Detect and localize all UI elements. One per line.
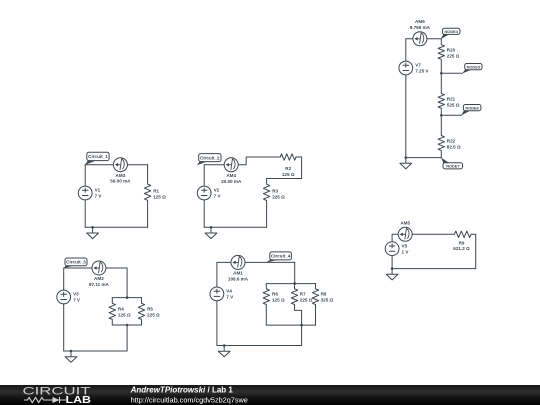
svg-text:V3: V3 [73,292,79,297]
svg-text:NODE5: NODE5 [467,64,481,69]
resistor R1 [144,165,166,228]
svg-text:Circuit_2: Circuit_2 [200,155,220,160]
wire top rail of parallel trio [266,283,315,285]
svg-text:R9: R9 [459,241,465,246]
svg-text:R22: R22 [447,139,456,144]
node label flag Circuit_3 [63,258,87,268]
resistor R7 [291,284,312,305]
node label flag Circuit_2 [197,154,221,166]
wire top of circuit 3 [64,267,127,269]
wire bottom rail of parallel trio [266,324,315,326]
svg-text:AM6: AM6 [415,19,425,24]
wire from bottom rail to bottom wire [126,325,128,351]
svg-text:R3: R3 [272,188,278,193]
svg-text:R8: R8 [321,292,327,297]
junction at bottom rail [300,324,303,327]
svg-text:LAB: LAB [66,395,92,405]
wire right of circuit 5 [471,234,476,268]
ground of circuit 5 [386,267,398,280]
voltage source V1 7V [78,186,102,200]
resistor R22 [438,115,461,157]
voltage source V5 1V [385,242,409,256]
wire left of circuit 2 [203,165,205,228]
voltage source V2 7V [197,186,221,200]
svg-text:Circuit_4: Circuit_4 [271,254,291,259]
junction at top rail [293,282,296,285]
svg-text:AndrewTPiotrowski / Lab 1: AndrewTPiotrowski / Lab 1 [130,385,234,394]
ground of circuit 6 [400,156,412,169]
svg-text:7 V: 7 V [214,194,222,199]
svg-text:7 V: 7 V [95,194,103,199]
svg-text:87.11 mA: 87.11 mA [89,282,110,287]
node label flag Circuit_1 [85,152,109,165]
svg-text:7.25 V: 7.25 V [415,69,429,74]
svg-text:225 Ω: 225 Ω [147,313,160,318]
resistor R2 [280,154,296,177]
svg-text:Circuit_3: Circuit_3 [66,260,86,265]
svg-text:http://circuitlab.com/cgdv5zb2: http://circuitlab.com/cgdv5zb2q7swe [131,395,248,404]
wire feed down to parallel trio [294,262,296,283]
svg-text:108.6 mA: 108.6 mA [228,276,249,281]
wire stub to NODE5 flag [441,72,462,74]
svg-text:8.799 mA: 8.799 mA [410,25,431,30]
resistor R20 [438,39,460,74]
svg-text:125 Ω: 125 Ω [282,172,295,177]
wire left of circuit 3 [63,268,65,351]
svg-text:125 Ω: 125 Ω [153,194,166,199]
node label flag NODE6 [461,105,481,116]
svg-text:V5: V5 [402,243,408,248]
wire stub to NODE6 flag [441,114,461,116]
svg-text:AM5: AM5 [400,220,410,225]
voltage source V7 7.25V [399,61,430,75]
voltage source V3 7V [57,290,81,304]
svg-text:7 V: 7 V [226,295,234,300]
wire bottom of circuit 2 [204,226,266,228]
voltage source V4 7V [210,287,234,301]
svg-text:525 Ω: 525 Ω [447,103,460,108]
svg-text:R5: R5 [147,307,153,312]
svg-text:82.5 Ω: 82.5 Ω [447,145,461,150]
wire right side down from R2 to R3 [267,157,302,179]
ammeter AM2 [89,261,110,287]
svg-text:V4: V4 [226,289,232,294]
wire top of circuit 2 (with step up to R2) [204,157,280,165]
wire top rail of parallel pair [112,297,141,299]
svg-text:AM4: AM4 [226,173,236,178]
wire jog from R7 down to bottom wire [295,305,302,346]
svg-text:R21: R21 [447,97,456,102]
svg-text:V7: V7 [415,63,421,68]
svg-text:NODE4: NODE4 [444,29,458,34]
svg-text:125 Ω: 125 Ω [272,298,285,303]
svg-text:R4: R4 [118,307,124,312]
wire left of circuit 1 [84,165,86,228]
junction at NODE5 [440,72,443,75]
wire left of circuit 6 [405,39,407,158]
ground of circuit 4 [218,344,230,357]
svg-text:7 V: 7 V [73,298,81,303]
resistor R5 [138,298,160,325]
svg-text:R7: R7 [300,292,306,297]
resistor R9 [453,231,471,251]
svg-text:R6: R6 [272,292,278,297]
junction at top rail [126,296,129,299]
wire bottom of circuit 6 [406,157,442,159]
wire bottom of circuit 4 [217,345,302,347]
svg-text:325 Ω: 325 Ω [321,298,334,303]
node label flag NODE5 [462,64,482,74]
junction at NODE6 [440,114,443,117]
svg-text:225 Ω: 225 Ω [447,54,460,59]
ammeter AM1 [228,255,249,281]
node label flag Circuit_4 [266,252,292,263]
svg-text:NODE6: NODE6 [465,105,479,110]
wire left of circuit 5 [391,256,393,269]
wire top of circuit 6 [406,38,442,40]
ammeter AM4 [221,158,242,184]
svg-text:R2: R2 [285,166,291,171]
svg-text:1 V: 1 V [402,249,410,254]
resistor R21 [438,73,460,115]
svg-text:125 Ω: 125 Ω [118,313,131,318]
resistor R6 [263,284,285,326]
svg-text:AM2: AM2 [94,276,104,281]
wire top of circuit 5 [412,233,454,235]
wire left of circuit 4 [216,262,218,345]
node label flag NODE4 [441,28,460,39]
wire bottom rail of parallel pair [112,324,141,326]
svg-text:225 Ω: 225 Ω [272,194,285,199]
wire bottom of circuit 3 [64,350,127,352]
ammeter AM5 [398,220,412,241]
svg-text:AM1: AM1 [233,271,243,276]
wire feed down to parallel pair [126,268,128,298]
ground of circuit 2 [205,226,217,239]
svg-text:R1: R1 [153,188,159,193]
svg-text:20.00 mA: 20.00 mA [221,179,242,184]
ground of circuit 3 [65,350,77,363]
svg-text:NODE7: NODE7 [446,164,459,169]
wire bottom of circuit 5 [392,268,476,270]
resistor R8 [312,284,333,326]
ground of circuit 1 [87,226,99,239]
junction at bottom rail [126,324,129,327]
svg-text:V1: V1 [95,188,101,193]
svg-text:V2: V2 [214,188,220,193]
wire top of circuit 4 [217,261,295,263]
svg-text:621.2 Ω: 621.2 Ω [453,246,470,251]
wire top of circuit 1 [85,164,147,166]
wire bottom of circuit 1 [85,226,147,228]
footer bar [0,385,540,405]
svg-text:56.00 mA: 56.00 mA [110,179,131,184]
svg-text:225 Ω: 225 Ω [300,298,313,303]
svg-text:AM3: AM3 [116,173,126,178]
ammeter AM3 [110,158,131,184]
svg-text:Circuit_1: Circuit_1 [88,154,108,159]
resistor R3 [263,179,285,228]
node label flag NODE7 [441,158,463,169]
svg-text:R20: R20 [447,48,456,53]
resistor R4 [109,298,131,325]
wire from ammeter to V5 (top left corner) [392,234,398,242]
ammeter AM6 [410,19,431,46]
CircuitLab logo schematic glyph (wire resistor diode) [24,397,66,403]
